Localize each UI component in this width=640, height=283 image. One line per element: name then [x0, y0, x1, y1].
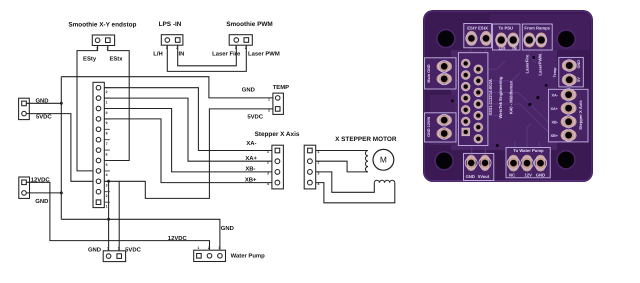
svg-text:Stepper X Axis: Stepper X Axis — [255, 131, 300, 138]
wire pin4 to XB+ — [104, 119, 272, 183]
svg-text:GND: GND — [35, 198, 48, 205]
svg-text:5VDC: 5VDC — [36, 114, 52, 121]
svg-text:GND: GND — [466, 174, 475, 179]
pcb corner hole bottom-left — [434, 151, 453, 170]
svg-text:0: 0 — [106, 111, 108, 115]
svg-text:XA-: XA- — [246, 140, 256, 147]
svg-text:6: 6 — [106, 152, 108, 156]
svg-text:1: 1 — [166, 46, 168, 50]
svg-text:5V: 5V — [577, 77, 581, 82]
svg-text:XB+: XB+ — [245, 176, 257, 183]
svg-text:WeisTek Engineering: WeisTek Engineering — [498, 76, 503, 118]
svg-text:TEMP: TEMP — [273, 84, 289, 91]
svg-text:5: 5 — [106, 163, 108, 167]
svg-text:Laser PWM: Laser PWM — [248, 50, 280, 57]
svg-text:NC: NC — [509, 172, 515, 177]
svg-text:L/H: L/H — [499, 45, 506, 50]
svg-text:12VDC: 12VDC — [168, 235, 188, 242]
svg-text:Temp: Temp — [553, 67, 557, 78]
connector J7 TEMP — [273, 93, 284, 114]
svg-text:EStx: EStx — [109, 55, 123, 62]
svg-text:2: 2 — [106, 194, 108, 198]
wire ESty — [77, 46, 98, 171]
svg-text:LaserFire: LaserFire — [525, 54, 530, 74]
pcb board — [423, 10, 593, 182]
pcb vias — [451, 56, 548, 147]
svg-text:5VDC: 5VDC — [125, 246, 141, 253]
svg-text:5VDC: 5VDC — [247, 114, 263, 121]
svg-text:1: 1 — [197, 246, 199, 250]
svg-text:2: 2 — [118, 247, 120, 251]
connector J5 central Smoothie header — [93, 82, 104, 207]
PCB photo — [423, 10, 593, 182]
wire GND vertical trunk — [60, 77, 62, 220]
connector J8 Stepper X Axis left — [272, 145, 284, 189]
svg-text:XB-: XB- — [551, 121, 558, 125]
wire GND from J6 bottom-left — [26, 192, 61, 194]
svg-text:XB-: XB- — [245, 166, 255, 173]
svg-text:Main GND: Main GND — [427, 64, 431, 82]
svg-text:K40 - Middleman: K40 - Middleman — [508, 80, 513, 114]
connector J1 Smoothie X-Y endstop — [92, 35, 114, 46]
svg-text:3: 3 — [218, 246, 220, 250]
connector J3 Smoothie PWM — [229, 35, 252, 46]
svg-text:From Ramps: From Ramps — [524, 25, 550, 30]
connector J6 12VDC input — [19, 177, 30, 198]
wire EStx — [104, 46, 129, 161]
svg-text:X STEPPER MOTOR: X STEPPER MOTOR — [335, 136, 397, 143]
wire pin2 to XA+ — [104, 98, 272, 161]
svg-text:GND: GND — [242, 87, 255, 94]
svg-text:12VDC: 12VDC — [31, 177, 51, 184]
svg-text:XA+: XA+ — [551, 107, 559, 111]
pcb cluster EStY EStX — [464, 24, 492, 48]
svg-text:M: M — [380, 155, 387, 165]
svg-text:2: 2 — [176, 46, 178, 50]
wire pin1 to XA- — [104, 88, 272, 151]
pcb corner hole bottom-right — [556, 150, 575, 169]
pcb cluster 12VIN — [425, 113, 457, 142]
inductor winding A — [365, 151, 368, 172]
svg-text:2: 2 — [107, 47, 109, 51]
svg-text:Laser Fire: Laser Fire — [212, 50, 241, 57]
pcb cluster Main GND — [425, 58, 457, 89]
svg-text:To PSU: To PSU — [499, 25, 514, 30]
svg-text:1: 1 — [318, 150, 320, 154]
wire IN to Laser Fire — [178, 45, 237, 66]
svg-text:Smoothie PWM: Smoothie PWM — [226, 21, 273, 28]
svg-text:2: 2 — [106, 90, 108, 94]
svg-text:XB+: XB+ — [551, 134, 559, 138]
pcb cluster From Ramps — [522, 24, 552, 76]
svg-text:GND 12VIN: GND 12VIN — [427, 117, 431, 137]
pcb cluster GND 5Vout — [464, 153, 494, 180]
motor M1 circle — [373, 149, 394, 170]
wire pin3 to XB- — [104, 109, 272, 172]
pcb corner hole top-right — [557, 29, 576, 48]
svg-text:5Vout: 5Vout — [478, 174, 490, 179]
svg-text:2: 2 — [245, 46, 247, 50]
svg-text:LPS -IN: LPS -IN — [159, 21, 182, 28]
wire 12VDC from J6 to Water Pump — [26, 182, 209, 250]
svg-text:IN: IN — [178, 50, 184, 57]
svg-text:LaserPWM: LaserPWM — [538, 54, 543, 76]
pin ticks J5 — [104, 88, 110, 203]
svg-text:1: 1 — [235, 46, 237, 50]
connector J10 bottom 5VDC/GND — [103, 251, 125, 262]
wire motor phase B right — [316, 183, 395, 203]
svg-text:XA+: XA+ — [245, 155, 257, 162]
wire motor phase A top — [316, 150, 368, 152]
svg-text:IN: IN — [512, 45, 516, 50]
svg-text:3: 3 — [106, 184, 108, 188]
wire GND top run to TEMP — [61, 77, 273, 98]
wire L/H to Laser PWM — [167, 45, 246, 71]
connector J9 Stepper X Axis right — [304, 145, 316, 189]
svg-text:GND: GND — [536, 172, 545, 177]
svg-text:GND: GND — [88, 246, 101, 253]
pcb cluster Stepper X Axis — [549, 89, 588, 142]
svg-text:1: 1 — [96, 47, 98, 51]
wire GND bottom run to Water Pump — [61, 219, 220, 250]
svg-text:3: 3 — [267, 171, 269, 175]
svg-text:1: 1 — [107, 247, 109, 251]
wire 5VDC drop B to bottom connector — [118, 181, 120, 251]
svg-text:1: 1 — [106, 204, 108, 208]
svg-text:L/H: L/H — [153, 50, 163, 57]
svg-text:1: 1 — [268, 97, 270, 101]
svg-text:3: 3 — [318, 171, 320, 175]
pcb traces — [454, 49, 570, 153]
inductor winding B — [374, 180, 395, 183]
pcb central header footprint — [458, 53, 488, 146]
wire motor phase A bottom — [316, 161, 368, 172]
svg-text:4: 4 — [318, 182, 320, 186]
svg-text:12V: 12V — [524, 172, 532, 177]
svg-text:7: 7 — [106, 142, 108, 146]
svg-text:2: 2 — [268, 108, 270, 112]
svg-text:XA-: XA- — [551, 94, 558, 98]
pcb cluster To PSU — [493, 24, 521, 50]
svg-text:4: 4 — [106, 173, 108, 177]
svg-text:2: 2 — [318, 161, 320, 165]
pcb cluster To Water Pump — [506, 148, 550, 178]
junction dots — [60, 102, 110, 221]
svg-text:Water Pump: Water Pump — [231, 252, 266, 259]
wire 5VDC from J4 to central pin10 — [26, 114, 93, 182]
connector J4 5VDC input — [19, 98, 30, 119]
pcb corner hole top-left — [436, 29, 455, 48]
connector J11 Water Pump — [194, 250, 226, 261]
svg-text:1: 1 — [106, 100, 108, 104]
tiny pin numbers central header — [96, 46, 320, 250]
svg-text:EStY EStX: EStY EStX — [467, 25, 488, 30]
connector J2 LPS-IN — [161, 35, 183, 46]
svg-text:9: 9 — [106, 121, 108, 125]
svg-text:2: 2 — [208, 246, 210, 250]
schematic text labels — [68, 21, 396, 143]
svg-text:GND: GND — [577, 60, 581, 69]
svg-text:4: 4 — [267, 182, 269, 186]
wire GND from J4 — [26, 102, 61, 104]
svg-text:GND: GND — [221, 225, 234, 232]
svg-text:8: 8 — [106, 132, 108, 136]
wire motor phase B left — [316, 172, 375, 192]
pcb cluster Temp — [553, 57, 583, 87]
svg-text:To Water Pump: To Water Pump — [513, 148, 544, 153]
wire 5VDC drop A to bottom connector — [108, 181, 110, 251]
svg-text:Smoothie X-Y endstop: Smoothie X-Y endstop — [68, 22, 136, 29]
wire 5VDC right branch to TEMP — [104, 109, 273, 198]
svg-text:Stepper X Axis: Stepper X Axis — [578, 100, 583, 130]
svg-text:1: 1 — [267, 150, 269, 154]
svg-text:ESty: ESty — [83, 55, 97, 62]
svg-text:0331:112214:002A: 0331:112214:002A — [488, 79, 493, 115]
svg-text:2: 2 — [267, 161, 269, 165]
svg-text:GND: GND — [35, 98, 48, 105]
